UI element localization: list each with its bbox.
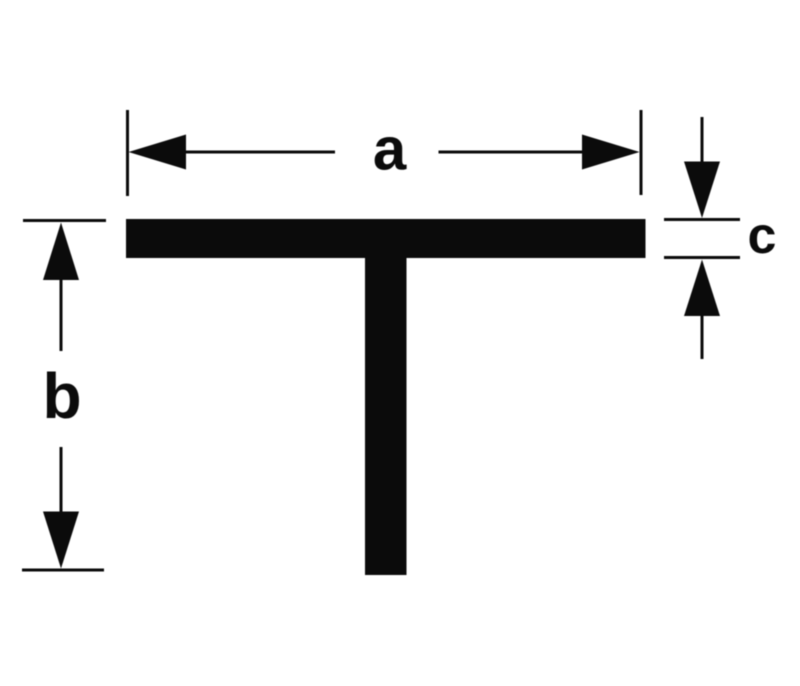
svg-text:b: b	[42, 360, 81, 432]
svg-text:c: c	[748, 207, 777, 265]
svg-text:a: a	[373, 116, 407, 183]
